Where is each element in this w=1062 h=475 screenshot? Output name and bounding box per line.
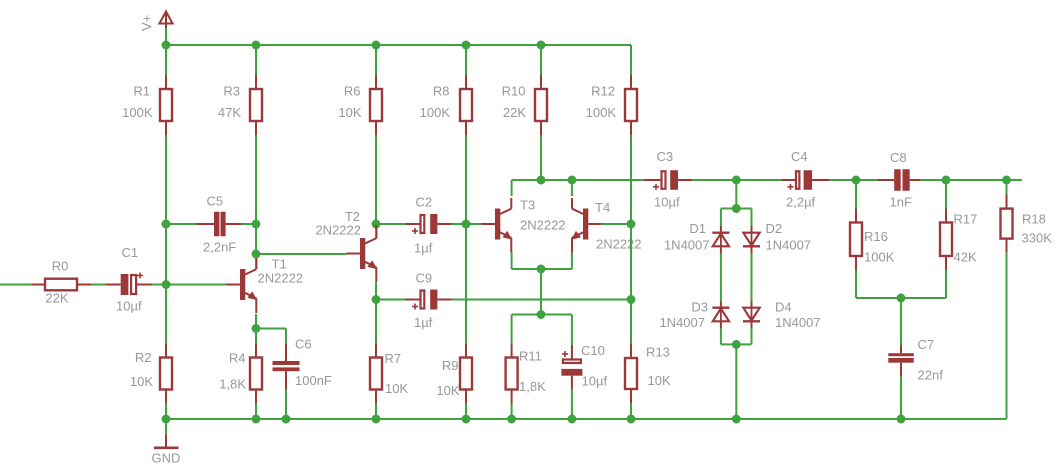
svg-text:R18: R18 <box>1022 212 1046 227</box>
svg-text:1µf: 1µf <box>414 315 433 330</box>
resistor R4 1,8K <box>219 344 262 404</box>
diode D2 1N4007 <box>743 221 811 253</box>
svg-text:22nf: 22nf <box>918 368 944 383</box>
svg-text:10K: 10K <box>648 373 671 388</box>
svg-text:42K: 42K <box>954 250 977 265</box>
wire rail to R10 <box>540 45 542 75</box>
wire rail to R3 <box>255 45 257 75</box>
resistor R8 100K <box>420 75 472 135</box>
node junction C5/R3 <box>252 220 261 229</box>
wire C9 left <box>376 299 406 301</box>
capacitor C9 1µf (polarized) <box>406 271 452 331</box>
svg-text:R9: R9 <box>442 358 459 373</box>
svg-text:T4: T4 <box>595 200 610 215</box>
node junction GND <box>162 415 171 424</box>
node junction lower bus <box>537 310 546 319</box>
wire rail to R8 <box>465 45 467 75</box>
svg-text:C5: C5 <box>207 194 224 209</box>
wire emitter node to C6 <box>256 328 286 330</box>
wire V+ stub <box>165 28 167 75</box>
svg-text:R8: R8 <box>433 84 450 99</box>
resistor R6 10K <box>338 75 382 135</box>
transistor T4 2N2222 (NPN, mirrored) <box>571 198 641 253</box>
svg-text:10K: 10K <box>338 105 361 120</box>
wire R10 bottom <box>540 135 542 180</box>
wire C8 to R17 node <box>921 179 1022 181</box>
node junction R13/gnd <box>627 415 636 424</box>
svg-text:1,8K: 1,8K <box>519 379 546 394</box>
wire C6 drop <box>285 329 287 346</box>
svg-text:R6: R6 <box>344 84 361 99</box>
diode D4 1N4007 <box>743 300 821 331</box>
svg-text:R11: R11 <box>519 349 542 364</box>
node junction R9/gnd <box>462 415 471 424</box>
wire lower bus to C10 <box>571 315 573 347</box>
wire node to R17 <box>945 180 947 209</box>
svg-text:10K: 10K <box>436 383 459 398</box>
wire node to R16 <box>855 180 857 209</box>
wire node to T3 base + down <box>465 224 467 344</box>
svg-text:10K: 10K <box>130 374 153 389</box>
capacitor C10 10µf (polarized) <box>561 343 607 389</box>
svg-text:10µf: 10µf <box>654 195 680 210</box>
svg-text:1N4007: 1N4007 <box>775 315 821 330</box>
wire T1 emitter to node <box>255 314 257 344</box>
svg-text:2,2nF: 2,2nF <box>203 240 236 255</box>
node junction diode bridge tap <box>732 176 741 185</box>
svg-text:22K: 22K <box>503 105 526 120</box>
svg-text:C9: C9 <box>416 271 433 286</box>
node junction R10 / collector bus <box>537 176 546 185</box>
wire R3 node to T1 collector <box>255 224 257 259</box>
svg-text:2N2222: 2N2222 <box>520 218 566 233</box>
svg-text:C4: C4 <box>791 149 808 164</box>
node junction T1 collector <box>252 250 261 259</box>
wire R8 bottom <box>465 135 467 224</box>
resistor R1 100K <box>122 75 172 135</box>
wire emitter bus to lower bus <box>540 269 542 315</box>
wire bridge top bar <box>721 208 752 210</box>
resistor R11 1,8K <box>506 344 546 404</box>
svg-text:C6: C6 <box>295 337 312 352</box>
wire C3 to bridge node <box>692 179 782 181</box>
wire T2 emitter to node <box>375 282 377 300</box>
node junction T2 collector / C2 <box>372 220 381 229</box>
wire bridge right lower <box>751 328 753 344</box>
resistor R13 10K <box>625 344 671 403</box>
svg-text:C1: C1 <box>122 245 139 260</box>
wire T4 collector riser <box>571 180 573 196</box>
svg-text:1nF: 1nF <box>890 195 912 210</box>
node junction R4/gnd <box>252 415 261 424</box>
node junction C7 tap <box>897 294 906 303</box>
resistor R12 100K <box>586 75 637 135</box>
capacitor C8 1nF <box>878 150 921 210</box>
node junction bridge/gnd <box>732 415 741 424</box>
node junction T4 collector / bus <box>567 176 576 185</box>
transistor T1 2N2222 (NPN) <box>227 257 304 314</box>
node junction input / T1 base <box>162 280 171 289</box>
node junction C2 / T3 base <box>462 220 471 229</box>
svg-text:2,2µf: 2,2µf <box>786 195 816 210</box>
svg-text:D2: D2 <box>766 221 783 236</box>
svg-text:1N4007: 1N4007 <box>659 315 705 330</box>
wire R16 to bus <box>855 270 857 298</box>
wire R7 to ground rail <box>375 404 377 420</box>
node junction C10/gnd <box>567 415 576 424</box>
wire C7 to ground rail <box>900 376 902 419</box>
node junction V+/R8 <box>462 41 471 50</box>
node junction R18 / output <box>1002 176 1011 185</box>
svg-text:R10: R10 <box>502 84 526 99</box>
wire R4 to ground rail <box>255 404 257 420</box>
svg-text:330K: 330K <box>1022 231 1053 246</box>
svg-text:2N2222: 2N2222 <box>315 223 361 238</box>
svg-text:100nF: 100nF <box>295 373 332 388</box>
node junction emitter bus <box>537 265 546 274</box>
capacitor C2 1µf (polarized) <box>406 195 452 256</box>
wire bridge left lower <box>720 328 722 344</box>
svg-text:C3: C3 <box>657 149 674 164</box>
node junction T1 emitter / R4 / C6 <box>252 324 261 333</box>
svg-text:10K: 10K <box>385 381 408 396</box>
resistor R9 10K <box>436 344 472 404</box>
capacitor C7 22nf <box>888 337 943 383</box>
wire R9 to ground rail <box>465 404 467 420</box>
resistor R3 47K <box>218 75 262 135</box>
wire C4 to R16 node <box>829 179 878 181</box>
wire bridge tap down <box>735 180 737 209</box>
node junction V+/R6 <box>372 41 381 50</box>
transistor T3 2N2222 (NPN) <box>482 198 566 253</box>
wire input <box>0 284 32 286</box>
svg-text:10µf: 10µf <box>116 299 142 314</box>
wire C5 to R3 node <box>241 223 256 225</box>
capacitor C3 10µf (polarized) <box>644 149 692 210</box>
node junction T4 base / x631 <box>627 220 636 229</box>
resistor R17 42K <box>940 209 977 271</box>
wire R2 to ground rail <box>165 404 167 420</box>
wire V+ rail (top) <box>166 44 631 46</box>
svg-text:100K: 100K <box>586 105 617 120</box>
wire C1 to node <box>152 284 167 286</box>
capacitor C4 2,2µf (polarized) <box>782 149 829 210</box>
wire emitter bus <box>512 268 572 270</box>
svg-text:D1: D1 <box>689 221 706 236</box>
wire node to C5 <box>166 223 197 225</box>
wire T1 collector stub <box>255 258 257 269</box>
resistor R10 22K <box>502 75 547 135</box>
diode D1 1N4007 <box>664 221 729 253</box>
node junction R11/gnd <box>507 415 516 424</box>
svg-text:R3: R3 <box>223 84 240 99</box>
node junction V+/R10 <box>537 41 546 50</box>
node junction bridge bottom <box>732 340 741 349</box>
svg-text:C7: C7 <box>918 337 935 352</box>
svg-text:100K: 100K <box>122 105 153 120</box>
wire lower bus to R11 <box>511 315 513 345</box>
wire C7 tap down <box>900 298 902 346</box>
ground GND <box>165 419 167 434</box>
wire bridge right upper <box>751 209 753 227</box>
wire T1 collector to T2 base <box>256 253 347 255</box>
svg-text:T1: T1 <box>272 257 287 272</box>
wire T4 emitter drop <box>571 253 573 270</box>
svg-text:1µf: 1µf <box>414 241 433 256</box>
svg-text:GND: GND <box>152 451 181 466</box>
wire R16/R17 bottom bus <box>856 297 946 299</box>
node junction C5 left / x166 <box>162 220 171 229</box>
wire node to R18 <box>1006 180 1008 195</box>
wire collector bus <box>512 179 644 181</box>
svg-text:D3: D3 <box>691 300 708 315</box>
svg-text:1N4007: 1N4007 <box>664 238 710 253</box>
wire T4 base to x631 <box>602 223 631 225</box>
svg-text:R12: R12 <box>591 84 615 99</box>
node junction R7/gnd <box>372 415 381 424</box>
svg-text:R16: R16 <box>864 229 888 244</box>
wire R3 bottom <box>255 135 257 224</box>
node junction C9 / x631 <box>627 295 636 304</box>
svg-text:2N2222: 2N2222 <box>596 237 642 252</box>
resistor R16 100K <box>850 209 895 271</box>
svg-text:V+: V+ <box>139 15 154 31</box>
wire lower bus R11/C10 <box>512 314 572 316</box>
svg-text:C2: C2 <box>416 195 433 210</box>
svg-text:10µf: 10µf <box>582 374 608 389</box>
wire bridge left middle <box>720 253 722 301</box>
wire emitter node down <box>375 300 377 345</box>
wire ground rail (bottom) <box>166 418 1007 420</box>
wire R12 to R13 <box>630 135 632 344</box>
svg-text:1N4007: 1N4007 <box>766 238 812 253</box>
wire R12 bottom long <box>630 45 632 75</box>
wire R11 to ground rail <box>511 404 513 420</box>
resistor R0 22K <box>32 259 92 306</box>
resistor R18 330K <box>1001 195 1053 253</box>
wire R18 to ground rail <box>1006 253 1008 419</box>
svg-text:T3: T3 <box>520 198 535 213</box>
capacitor C5 2,2nF <box>197 194 242 255</box>
wire bridge left upper <box>720 209 722 227</box>
svg-text:R4: R4 <box>229 351 246 366</box>
node junction C6/gnd <box>282 415 291 424</box>
svg-text:R0: R0 <box>52 259 69 274</box>
svg-text:22K: 22K <box>45 291 68 306</box>
svg-text:R17: R17 <box>954 212 978 227</box>
capacitor C1 10µf (polarized) <box>106 245 152 314</box>
transistor T2 2N2222 (NPN) <box>315 209 377 282</box>
wire bridge bottom bar <box>721 343 752 345</box>
node junction R16 / C8 <box>852 176 861 185</box>
svg-text:R7: R7 <box>385 351 402 366</box>
wire R0 to C1 <box>91 284 106 286</box>
wire bridge right middle <box>751 253 753 301</box>
resistor R2 10K <box>130 344 172 404</box>
wire R6 bottom <box>375 135 377 224</box>
wire bridge bottom to ground rail <box>735 344 737 419</box>
wire R13 to ground rail <box>630 403 632 419</box>
node junction V+/R1 <box>162 41 171 50</box>
svg-text:R2: R2 <box>135 350 152 365</box>
wire C9 to x631 node <box>452 299 632 301</box>
wire T3 base <box>466 223 482 225</box>
wire C2 to R8 node <box>452 223 467 225</box>
svg-text:47K: 47K <box>218 105 241 120</box>
wire T2 collector stub <box>375 224 377 239</box>
svg-text:2N2222: 2N2222 <box>258 271 304 286</box>
svg-text:R13: R13 <box>646 345 670 360</box>
wire T2 collector to C2 <box>376 223 406 225</box>
power symbol V+ <box>159 12 172 24</box>
wire R17 to bus <box>945 270 947 298</box>
wire rail to R6 <box>375 45 377 75</box>
wire T3 collector riser <box>511 180 513 196</box>
node junction V+/R3 <box>252 41 261 50</box>
diode D3 1N4007 <box>659 300 729 331</box>
wire T1 base <box>166 284 227 286</box>
svg-text:C8: C8 <box>890 150 907 165</box>
capacitor C6 100nF <box>273 337 332 390</box>
wire C10 to ground rail <box>571 389 573 419</box>
wire T3 emitter drop <box>511 253 513 270</box>
svg-text:C10: C10 <box>581 343 605 358</box>
resistor R7 10K <box>370 344 408 404</box>
svg-text:R1: R1 <box>133 84 150 99</box>
svg-text:100K: 100K <box>420 105 451 120</box>
svg-text:D4: D4 <box>775 300 792 315</box>
wire C6 to ground rail <box>285 389 287 419</box>
node junction T2 emitter / C9 <box>372 295 381 304</box>
svg-text:1,8K: 1,8K <box>219 377 246 392</box>
wire R1 bottom to node IN <box>165 135 167 344</box>
node junction R17 <box>942 176 951 185</box>
svg-text:100K: 100K <box>864 250 895 265</box>
node junction bridge top <box>732 204 741 213</box>
node junction C7/gnd <box>897 415 906 424</box>
